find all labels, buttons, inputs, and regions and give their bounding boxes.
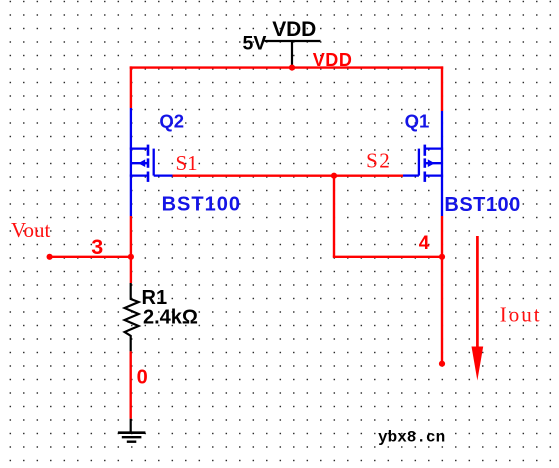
wire right rail upper (441, 66, 443, 111)
wire left rail lower (130, 216, 132, 283)
ground (118, 419, 145, 442)
wire resistor bottom (129, 351, 131, 418)
svg-text:3: 3 (91, 235, 103, 259)
transistor Q1 (403, 111, 443, 216)
endpoint dot right rail (439, 361, 445, 367)
svg-text:S1: S1 (176, 151, 198, 175)
current arrow Iout (472, 236, 484, 381)
wire node4 horizontal (333, 256, 442, 258)
svg-text:BST100: BST100 (162, 194, 241, 216)
svg-text:5V: 5V (243, 33, 267, 55)
endpoint dot Vout (47, 254, 53, 260)
svg-text:4: 4 (419, 233, 430, 254)
wire left rail upper (130, 66, 132, 108)
wire right rail lower (441, 216, 443, 364)
wire gate net S1-S2 (173, 174, 404, 176)
svg-text:S2: S2 (366, 148, 391, 172)
wire middle vertical (333, 176, 335, 257)
svg-text:VDD: VDD (272, 18, 316, 41)
svg-text:2.4kΩ: 2.4kΩ (143, 307, 198, 329)
svg-text:Q1: Q1 (405, 111, 430, 132)
resistor R1 (125, 283, 139, 351)
junction node 3 (128, 254, 134, 260)
junction VDD (289, 65, 295, 71)
svg-text:Vout: Vout (11, 218, 50, 242)
wire VDD top horizontal (130, 66, 444, 68)
transistor Q2 (130, 108, 173, 216)
power symbol VDD 5V bar (265, 41, 321, 67)
svg-text:0: 0 (137, 366, 148, 388)
svg-text:Iout: Iout (500, 303, 542, 327)
svg-text:Q2: Q2 (159, 111, 184, 132)
junction node 4 (439, 254, 445, 260)
svg-text:ybx8.cn: ybx8.cn (378, 428, 445, 446)
junction S net (331, 173, 337, 179)
wire node 3 (50, 256, 132, 258)
svg-text:BST100: BST100 (444, 194, 520, 216)
